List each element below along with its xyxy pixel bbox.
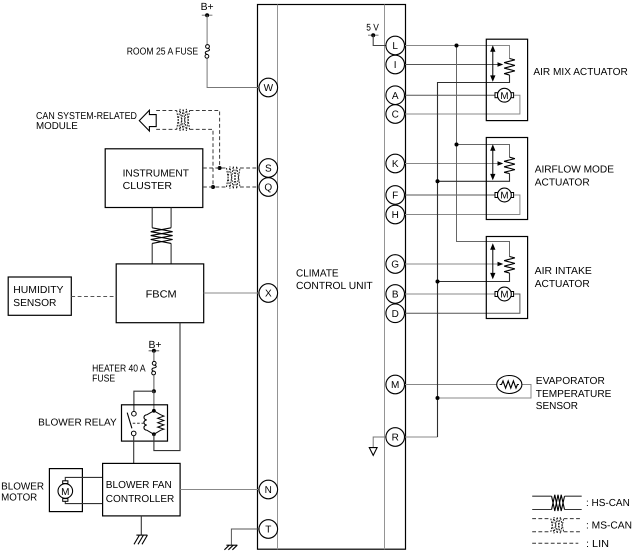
- air intake motor body: [498, 287, 512, 301]
- wire instrument cluster to terminal S (dashed MS-CAN): [203, 167, 259, 169]
- wire blower motor upper to controller: [65, 477, 102, 480]
- relay resistor zigzag: [158, 415, 164, 430]
- junction dot on Q wire: [211, 185, 215, 189]
- junction dot 5V bus at L wire: [455, 44, 459, 48]
- junction dot 5V bus at airflow branch: [455, 143, 459, 147]
- legend HS-CAN twisted pair symbol: [552, 495, 565, 511]
- wire terminal D to air intake motor return: [405, 294, 520, 313]
- arrow out below R (open triangle): [369, 448, 377, 456]
- wire junction to relay switch: [134, 391, 154, 411]
- legend HS-CAN wire pair: [532, 496, 582, 509]
- airflow mode wiper arrowhead: [498, 161, 504, 166]
- terminal D: [386, 304, 405, 323]
- wire terminal C to air mix motor return: [405, 95, 520, 114]
- svg-text:W: W: [264, 83, 274, 94]
- airflow mode motor left tab: [495, 193, 498, 198]
- terminal W: [259, 78, 278, 97]
- ground symbol at T: [224, 545, 237, 550]
- wire terminal T to ground: [231, 529, 258, 545]
- svg-text:R: R: [392, 433, 399, 444]
- wire MS-CAN module high (dashed): [156, 111, 219, 169]
- wire terminal B to air intake motor: [405, 293, 495, 295]
- junction dot above blower relay: [152, 389, 156, 393]
- terminal G: [386, 255, 405, 274]
- svg-text:K: K: [392, 159, 399, 170]
- climate control unit right inner connector line: [384, 5, 386, 550]
- terminal M: [386, 375, 405, 394]
- air mix wiper arrowhead: [498, 62, 504, 67]
- svg-text:HUMIDITY: HUMIDITY: [13, 285, 63, 296]
- svg-text:BLOWER RELAY: BLOWER RELAY: [38, 418, 117, 429]
- svg-text:CONTROLLER: CONTROLLER: [106, 494, 175, 505]
- terminal L: [386, 36, 405, 55]
- svg-text:BLOWER: BLOWER: [1, 482, 44, 493]
- svg-text:M: M: [391, 380, 399, 391]
- svg-text:ROOM 25 A FUSE: ROOM 25 A FUSE: [127, 47, 199, 58]
- junction dot return bus evaporator: [436, 396, 440, 400]
- air mix potentiometer resistor: [504, 59, 515, 76]
- wire terminal G to air intake wiper: [405, 263, 499, 265]
- legend MS-CAN twisted pair symbol: [551, 517, 564, 533]
- svg-text:ACTUATOR: ACTUATOR: [535, 279, 590, 290]
- svg-text:S: S: [265, 164, 272, 175]
- climate control unit left inner connector line: [277, 5, 279, 550]
- blower fan controller label: [106, 480, 175, 505]
- svg-text:F: F: [392, 191, 398, 202]
- terminal C: [386, 105, 405, 124]
- terminal K: [386, 154, 405, 173]
- node B+ room tap bar: [202, 14, 213, 16]
- legend LIN wire (dashed): [532, 542, 578, 544]
- wire terminal F to airflow motor: [405, 194, 495, 196]
- svg-text:L: L: [392, 41, 398, 52]
- wire cluster to FBCM HS-CAN left: [151, 208, 153, 264]
- blower fan controller box: [103, 463, 181, 516]
- terminal T: [259, 520, 278, 539]
- legend MS-CAN wire pair (dashed): [532, 519, 581, 532]
- return bus branch from airflow resistor: [438, 174, 510, 182]
- wire terminal L to air mix resistor: [405, 46, 510, 59]
- node B+ heater dot: [152, 349, 156, 353]
- svg-text:X: X: [265, 289, 272, 300]
- svg-text:FBCM: FBCM: [146, 289, 177, 300]
- wire terminal R to down arrow: [373, 437, 386, 447]
- air mix motor body: [498, 88, 512, 102]
- wire 5 V to terminal L: [373, 35, 386, 45]
- svg-text:SENSOR: SENSOR: [536, 401, 578, 412]
- svg-text:SENSOR: SENSOR: [13, 298, 56, 309]
- svg-text:M: M: [61, 487, 69, 498]
- evaporator temperature sensor element zigzag: [500, 381, 519, 388]
- terminal B: [386, 285, 405, 304]
- wire relay switch to blower fan controller: [133, 436, 135, 464]
- airflow mode motor right tab: [511, 193, 514, 198]
- blower relay box: [122, 405, 168, 441]
- junction dot return bus air intake: [436, 280, 440, 284]
- node B+ heater tap bar: [149, 350, 160, 352]
- svg-text:M: M: [500, 91, 508, 102]
- svg-text:CLUSTER: CLUSTER: [123, 181, 172, 192]
- air intake motor left tab: [495, 292, 498, 297]
- humidity sensor label: [13, 285, 63, 309]
- terminal A: [386, 86, 405, 105]
- svg-text:TEMPERATURE: TEMPERATURE: [536, 389, 612, 400]
- wire terminal A to air mix motor: [405, 94, 495, 96]
- svg-text:CONTROL UNIT: CONTROL UNIT: [296, 281, 373, 292]
- svg-text:B+: B+: [201, 2, 214, 13]
- svg-text:AIR MIX ACTUATOR: AIR MIX ACTUATOR: [533, 67, 627, 78]
- svg-text:H: H: [392, 210, 399, 221]
- relay switch lower contact: [131, 431, 136, 436]
- twisted pair symbol MS-CAN cluster: [227, 166, 241, 188]
- wire blower motor lower to controller: [65, 501, 102, 503]
- svg-text:MODULE: MODULE: [36, 121, 78, 132]
- relay coil windings: [144, 415, 147, 430]
- wire FBCM to terminal X: [204, 292, 259, 294]
- CAN system-related module block arrow: [139, 110, 156, 131]
- wire blower fan controller to terminal N: [180, 489, 259, 491]
- terminal I: [386, 55, 405, 74]
- terminal S: [259, 159, 278, 178]
- airflow mode travel double arrow: [491, 146, 495, 179]
- blower motor M1 body: [58, 484, 73, 499]
- svg-text:M: M: [500, 290, 508, 301]
- svg-text:EVAPORATOR: EVAPORATOR: [536, 376, 605, 387]
- air intake motor right tab: [511, 292, 514, 297]
- airflow mode motor body: [498, 188, 512, 202]
- terminal H: [386, 205, 405, 224]
- svg-text:AIR INTAKE: AIR INTAKE: [535, 266, 592, 277]
- 5V bus branch to airflow resistor: [457, 145, 510, 158]
- svg-text:G: G: [391, 260, 399, 271]
- svg-text:ACTUATOR: ACTUATOR: [535, 177, 590, 188]
- label AIRFLOW MODE ACTUATOR: [535, 164, 614, 188]
- svg-text:5 V: 5 V: [366, 23, 379, 34]
- wire terminal K to airflow wiper: [405, 163, 499, 165]
- label EVAPORATOR TEMPERATURE SENSOR: [536, 376, 612, 412]
- relay coil frame: [147, 411, 161, 435]
- air intake potentiometer resistor: [504, 257, 515, 274]
- terminal R: [386, 428, 405, 447]
- relay switch blade: [127, 413, 132, 429]
- node B+ room dot: [205, 13, 209, 17]
- svg-text:Q: Q: [264, 183, 272, 194]
- resistor-return bus to R: [438, 75, 510, 437]
- air intake travel double arrow: [491, 245, 495, 278]
- instrument cluster box: [105, 149, 203, 208]
- relay switch upper contact: [132, 411, 137, 416]
- airflow mode actuator box: [486, 138, 527, 220]
- relay coil bottom node dot: [152, 432, 156, 436]
- svg-text:BLOWER FAN: BLOWER FAN: [106, 480, 172, 491]
- svg-text:M: M: [500, 191, 508, 202]
- terminal N: [259, 480, 278, 499]
- air mix motor right tab: [511, 93, 514, 98]
- wire B+ to room fuse: [206, 15, 208, 44]
- svg-text:C: C: [392, 110, 399, 121]
- ground symbol below controller: [134, 535, 147, 544]
- wire terminal I to air mix wiper: [405, 64, 499, 66]
- wire evaporator sensor return to bus: [438, 385, 532, 399]
- label BLOWER MOTOR: [1, 482, 44, 504]
- wire heater fuse down to relay junction: [153, 376, 155, 392]
- wire B+ heater to fuse: [153, 351, 155, 361]
- svg-text:FUSE: FUSE: [92, 374, 115, 385]
- evaporator temperature sensor body: [497, 376, 522, 394]
- wire terminal R to resistor bus: [405, 436, 438, 438]
- svg-text:T: T: [265, 525, 271, 536]
- wire blower fan controller to ground: [140, 516, 142, 535]
- air intake wiper arrowhead: [498, 262, 504, 267]
- svg-text:CLIMATE: CLIMATE: [296, 268, 339, 279]
- svg-text:: LIN: : LIN: [586, 539, 609, 550]
- wire MS-CAN module low (dashed): [156, 129, 213, 187]
- terminal X: [259, 284, 278, 303]
- fuse ROOM 25 A: [205, 45, 210, 59]
- wire instrument cluster to terminal Q (dashed MS-CAN): [203, 186, 259, 188]
- svg-text:AIRFLOW MODE: AIRFLOW MODE: [535, 164, 614, 175]
- twisted pair symbol HS-CAN cluster-FBCM: [151, 228, 173, 244]
- svg-text:INSTRUMENT: INSTRUMENT: [123, 168, 189, 179]
- junction dot on S wire: [218, 166, 222, 170]
- instrument cluster label: [123, 168, 189, 192]
- climate control unit U1 outer box: [258, 5, 406, 550]
- label CAN SYSTEM-RELATED MODULE: [36, 111, 137, 132]
- relay coil top node dot: [152, 409, 156, 413]
- wire terminal H to airflow motor return: [405, 195, 520, 215]
- node 5 V tap bar: [368, 34, 379, 36]
- blower motor box: [49, 469, 82, 512]
- svg-text:D: D: [392, 309, 399, 320]
- climate control unit label: [296, 268, 373, 292]
- return bus branch from air intake resistor: [438, 273, 510, 282]
- air mix travel double arrow: [491, 47, 495, 81]
- wire cluster to FBCM HS-CAN right: [170, 208, 172, 264]
- wire junction to relay coil: [153, 391, 155, 411]
- humidity sensor box: [8, 277, 71, 315]
- wire room fuse to terminal W: [207, 59, 259, 88]
- terminal Q: [259, 178, 278, 197]
- label HEATER 40 A FUSE: [92, 364, 146, 385]
- svg-text:: MS-CAN: : MS-CAN: [586, 521, 632, 532]
- wire relay coil bottom loop to FBCM: [154, 323, 180, 451]
- svg-text:A: A: [392, 91, 399, 102]
- airflow mode potentiometer resistor: [504, 157, 515, 173]
- air mix actuator box: [486, 39, 527, 120]
- air mix motor left tab: [495, 93, 498, 98]
- blower motor M1 top tab: [63, 481, 68, 484]
- wire humidity sensor to FBCM (dashed LIN): [71, 296, 116, 298]
- svg-text:I: I: [394, 60, 397, 71]
- twisted pair symbol MS-CAN module: [177, 109, 190, 131]
- svg-text:B: B: [392, 290, 399, 301]
- FBCM box: [116, 264, 204, 323]
- blower motor M1 bottom tab: [63, 499, 68, 502]
- relay mechanical link (dashed): [133, 422, 144, 424]
- svg-text:N: N: [265, 485, 272, 496]
- svg-text:MOTOR: MOTOR: [1, 493, 37, 504]
- terminal F: [386, 186, 405, 205]
- svg-text:: HS-CAN: : HS-CAN: [586, 498, 630, 509]
- junction dot return bus airflow: [436, 179, 440, 183]
- fuse HEATER 40 A: [152, 361, 157, 375]
- label AIR INTAKE ACTUATOR: [535, 266, 592, 290]
- node 5 V dot: [371, 33, 375, 37]
- 5V supply bus: [457, 46, 510, 257]
- air intake actuator box: [486, 237, 527, 319]
- wire terminal M to evaporator sensor: [405, 384, 497, 386]
